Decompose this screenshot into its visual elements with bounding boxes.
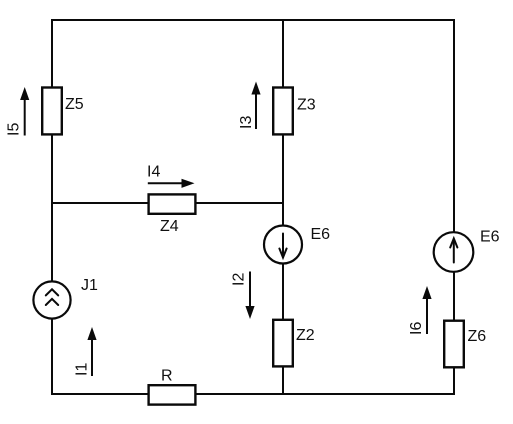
svg-text:Z2: Z2 [296,327,315,344]
svg-text:I6: I6 [408,322,425,335]
svg-text:Z6: Z6 [468,328,487,345]
svg-text:I2: I2 [231,273,248,286]
svg-text:E6: E6 [311,226,331,243]
svg-text:R: R [161,368,173,385]
svg-text:I1: I1 [74,363,91,376]
svg-text:Z5: Z5 [65,96,84,113]
svg-text:Z3: Z3 [297,97,316,114]
svg-text:I4: I4 [147,164,160,181]
svg-text:I3: I3 [238,116,255,129]
svg-text:J1: J1 [81,277,98,294]
svg-text:E6: E6 [480,229,500,246]
svg-text:Z4: Z4 [160,218,179,235]
svg-text:I5: I5 [6,123,23,136]
